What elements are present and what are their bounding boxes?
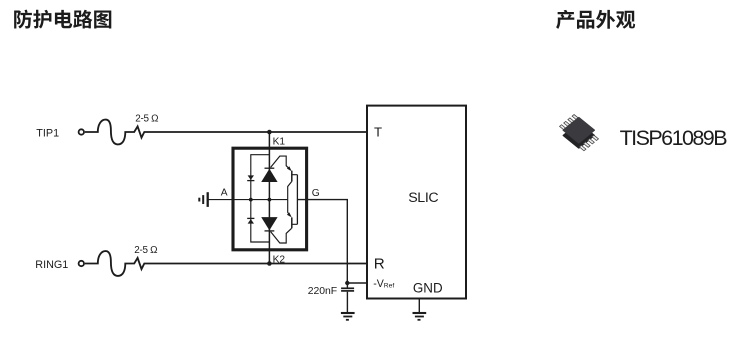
transistor gate structure Q2 lower	[271, 200, 298, 243]
junction dot K2 on RING wire	[267, 261, 272, 266]
svg-text:G: G	[312, 188, 320, 199]
wire -VRef pin to capacitor node	[347, 282, 367, 284]
svg-text:GND: GND	[413, 280, 443, 295]
thyristor TH2 lower (anode bar and filled triangle)	[261, 217, 277, 231]
diode D1 (upper, cathode down)	[247, 175, 254, 180]
svg-text:A: A	[221, 188, 228, 199]
wire G to -VRef node	[297, 200, 347, 283]
diode D2 (lower, cathode up)	[247, 218, 254, 223]
title: 产品外观 (product appearance)	[556, 10, 635, 29]
svg-text:RING1: RING1	[35, 259, 68, 271]
capacitor C1 220nF	[341, 283, 354, 312]
svg-text:TISP61089B: TISP61089B	[620, 126, 728, 150]
junction dot A on left diode branch	[249, 198, 253, 202]
junction dot A on cathode rail	[268, 198, 272, 202]
svg-text:K2: K2	[273, 255, 286, 266]
wire RING1 with line squiggle and resistor 2-5 ohm to SLIC R pin	[85, 251, 367, 276]
ground symbol below capacitor	[341, 313, 355, 320]
svg-text:TIP1: TIP1	[36, 128, 59, 140]
svg-text:2-5 Ω: 2-5 Ω	[134, 245, 157, 256]
wire gate/anode A horizontal	[208, 199, 288, 201]
junction dot K1 on TIP wire	[267, 130, 272, 135]
terminal RING1	[79, 261, 84, 266]
svg-text:2-5 Ω: 2-5 Ω	[135, 113, 158, 124]
ground symbol below SLIC GND	[413, 313, 427, 320]
wire cathode rail K1-K2 vertical	[268, 132, 270, 264]
thyristor protection device U1 package outline (thick box)	[233, 148, 307, 250]
title: 防护电路图 (protection circuit diagram)	[14, 10, 111, 29]
thyristor TH1 upper (cathode bar and filled triangle)	[261, 168, 277, 182]
svg-text:-VRef: -VRef	[373, 278, 394, 290]
svg-text:220nF: 220nF	[308, 286, 337, 297]
svg-text:R: R	[374, 256, 385, 273]
wire internal left branch (diode string K1 to K2)	[251, 155, 270, 242]
wire TIP1 with line squiggle and resistor 2-5 ohm to SLIC T pin	[85, 120, 367, 145]
earth ground at anode A (left-pointing)	[199, 192, 207, 207]
svg-text:K1: K1	[273, 136, 286, 147]
svg-text:T: T	[374, 125, 382, 140]
wire gate right rail	[296, 175, 298, 225]
svg-text:SLIC: SLIC	[408, 190, 438, 206]
junction dot -VRef/capacitor node	[345, 281, 349, 285]
IC package photo (SOIC-8 3D view)	[560, 115, 599, 151]
wire SLIC GND pin down	[418, 299, 420, 313]
terminal TIP1	[79, 129, 84, 134]
IC SLIC box	[367, 106, 466, 299]
transistor gate structure Q1 upper	[271, 156, 298, 200]
